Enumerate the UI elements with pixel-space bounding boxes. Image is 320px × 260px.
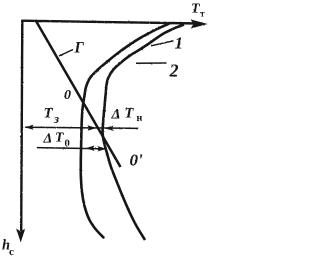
- svg-text:c: c: [9, 246, 14, 258]
- svg-text:Δ: Δ: [43, 132, 53, 147]
- svg-text:T: T: [125, 106, 135, 122]
- line Gamma (straight diagonal through O to O'): [36, 21, 121, 167]
- dimension row 1 shaft (T3 and dTn): [25, 127, 139, 128]
- arrowhead right at Gamma (T3): [88, 125, 97, 130]
- svg-text:т: т: [200, 10, 205, 20]
- svg-text:н: н: [137, 113, 143, 124]
- svg-text:0: 0: [65, 138, 70, 149]
- svg-text:Δ: Δ: [111, 107, 121, 123]
- svg-text:з: з: [53, 111, 59, 126]
- svg-text:0': 0': [130, 151, 144, 170]
- leader for label 1: [151, 41, 174, 46]
- svg-text:T: T: [55, 131, 65, 146]
- arrowhead left at curve2 (dTn): [105, 126, 114, 131]
- arrowhead left at axis (T3): [25, 125, 34, 130]
- leader for label 2: [136, 62, 167, 64]
- curve 2 (outer temperature profile): [103, 25, 184, 240]
- arrowhead h axis: [16, 229, 25, 243]
- svg-text:T: T: [44, 106, 54, 122]
- arrowhead T axis: [191, 19, 208, 28]
- axis T (top horizontal): [22, 21, 198, 24]
- svg-text:1: 1: [175, 34, 184, 53]
- dimension row 2 shaft (dT0): [37, 148, 107, 149]
- curve 1 (inner temperature profile): [81, 23, 170, 238]
- svg-text:0: 0: [64, 88, 71, 103]
- axis h (left vertical): [21, 20, 22, 231]
- leader for Gamma label: [59, 50, 73, 57]
- svg-text:2: 2: [169, 61, 179, 81]
- arrowhead right at Gamma (dT0): [98, 146, 107, 151]
- svg-text:Г: Г: [74, 40, 85, 57]
- arrowhead left at curve1 (dT0): [86, 146, 95, 151]
